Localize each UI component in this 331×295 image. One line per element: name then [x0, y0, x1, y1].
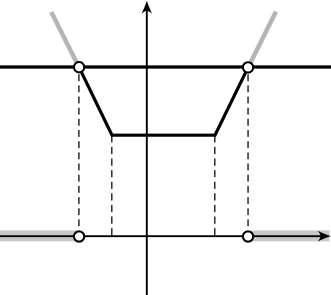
open circle at (3,0)	[243, 231, 253, 241]
top horizontal line y=5 (clamped value)	[0, 65, 331, 68]
open circle at (-2,0)	[74, 231, 84, 241]
x-axis line	[0, 235, 324, 237]
trapezoid branch of the function	[79, 67, 248, 135]
y-axis line	[146, 4, 148, 295]
gray ray continuing right slope above clamp	[248, 12, 276, 68]
gray band on x-axis, left segment (x < -2)	[0, 230, 79, 241]
dashed guide at x=-2 from curve to axis	[78, 74, 80, 226]
dashed guide at x=-1 from curve to axis	[111, 135, 113, 235]
dashed guide at x=2 from curve to axis	[214, 135, 216, 235]
x-axis arrowhead	[318, 231, 331, 242]
open circle at (-2,5)	[74, 62, 84, 72]
y-axis arrowhead	[142, 1, 153, 14]
open circle at (3,5)	[243, 62, 253, 72]
gray band on x-axis, right segment (x > 3)	[248, 230, 330, 241]
gray ray continuing left slope above clamp	[51, 12, 79, 68]
dashed guide at x=3 from curve to axis	[247, 74, 249, 226]
